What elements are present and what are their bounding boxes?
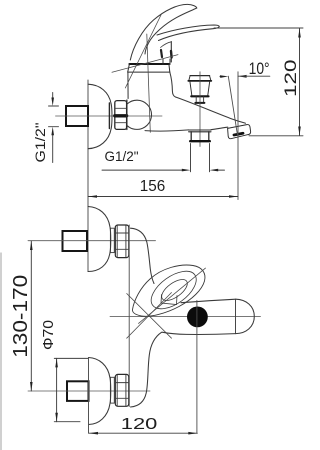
lower escutcheon dome bbox=[89, 358, 111, 425]
handle stem lines bbox=[162, 59, 164, 65]
handle fin (side view) bbox=[130, 4, 197, 60]
svg-text:156: 156 bbox=[140, 178, 166, 195]
wall line (side view, continues to front view upper escutcheon) bbox=[87, 80, 89, 272]
svg-text:120: 120 bbox=[281, 60, 300, 98]
120 right dim ext lines bbox=[214, 27, 303, 29]
capsule cap bbox=[236, 299, 255, 333]
escutcheon rim line bbox=[108, 103, 110, 129]
G1/2 pipe dim ticks bbox=[49, 105, 59, 107]
lower pipe bbox=[67, 381, 89, 401]
body circle (side view) bbox=[127, 100, 152, 129]
capsule bottom bbox=[162, 332, 236, 334]
upper nut bbox=[115, 225, 129, 258]
spout bottom edge bbox=[145, 130, 189, 131]
handle leaf middle bbox=[145, 264, 203, 316]
main centerline bbox=[110, 316, 261, 318]
svg-text:130-170: 130-170 bbox=[10, 275, 32, 358]
diverter knob bbox=[190, 75, 209, 77]
hex nut (side view) bbox=[115, 101, 127, 130]
lower body curve bbox=[131, 332, 162, 407]
120 bottom dim bbox=[89, 432, 197, 434]
handle lever blade bbox=[157, 25, 219, 41]
upper neck bbox=[110, 228, 114, 252]
upper body curve bbox=[131, 228, 155, 283]
G1/2 outlet ext lines bbox=[190, 144, 192, 172]
156 dim bbox=[88, 196, 238, 198]
extension line x=238 bbox=[237, 72, 239, 200]
nut faces vertical line bbox=[128, 225, 130, 407]
lower neck bbox=[110, 377, 114, 403]
lower wall line bbox=[88, 358, 90, 434]
svg-text:10°: 10° bbox=[249, 60, 270, 78]
130-170 dim bbox=[30, 241, 32, 391]
handle leaf inner bbox=[158, 276, 190, 305]
handle connector bbox=[170, 42, 172, 63]
upper escutcheon dome bbox=[88, 207, 111, 272]
G1/2 pipe dim arrows bbox=[52, 93, 54, 100]
nut face bbox=[126, 100, 128, 130]
dot extension line bbox=[196, 301, 198, 434]
G1/2 outlet dim bbox=[102, 169, 182, 171]
svg-text:G1/2": G1/2" bbox=[105, 148, 139, 164]
spout capsule top bbox=[181, 299, 236, 303]
120 right dim bbox=[299, 29, 301, 136]
construction line shallow bbox=[112, 55, 178, 73]
spout top edge bbox=[176, 97, 246, 123]
leaf tab bbox=[161, 295, 177, 305]
svg-text:Φ70: Φ70 bbox=[40, 320, 57, 350]
body column left edge bbox=[127, 72, 129, 98]
pipe centerline bbox=[56, 115, 163, 117]
phi70 dim bbox=[56, 358, 58, 421]
svg-text:G1/2": G1/2" bbox=[32, 122, 48, 162]
faint page edge line bbox=[0, 253, 2, 450]
X cross construction lines bbox=[127, 294, 172, 339]
upper pipe bbox=[63, 231, 88, 251]
cartridge housing bbox=[129, 63, 169, 65]
knob / outlet centerline bbox=[199, 72, 201, 147]
inlet pipe (side view) bbox=[66, 106, 88, 126]
handle leaf outer bbox=[132, 265, 205, 316]
body right edge to spout bbox=[170, 72, 176, 97]
cap junction bbox=[235, 299, 237, 333]
cartridge axis line bbox=[147, 34, 151, 132]
diverter knob front (black dot) bbox=[187, 307, 208, 328]
upper centerline bbox=[28, 240, 156, 242]
10 deg arrows bbox=[220, 76, 222, 78]
phi70 dim ticks bbox=[54, 357, 88, 359]
leaf axis line bbox=[139, 268, 206, 323]
escutcheon dome (side view) bbox=[88, 84, 112, 149]
shower outlet fitting bbox=[189, 129, 211, 131]
spout tip piece bbox=[228, 125, 251, 139]
10 deg tilted line bbox=[228, 76, 237, 134]
aerator slot bbox=[234, 133, 243, 135]
svg-text:120: 120 bbox=[121, 416, 158, 433]
lower nut bbox=[115, 374, 129, 406]
construction line steep bbox=[125, 14, 161, 89]
lower centerline bbox=[28, 390, 150, 392]
